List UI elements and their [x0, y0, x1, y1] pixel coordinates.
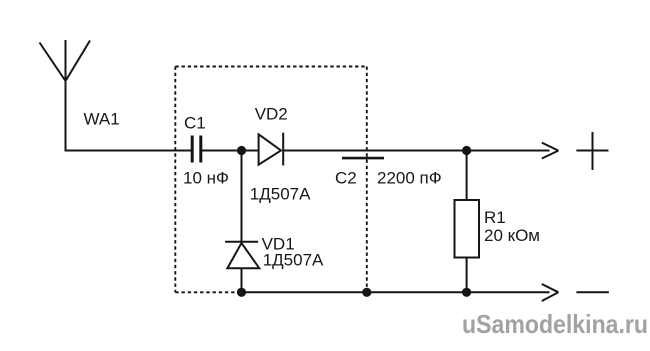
svg-text:1Д507А: 1Д507А [250, 184, 311, 203]
resistor R1 [455, 200, 480, 258]
node C junction dot [237, 288, 246, 297]
wire R1 down to node F [466, 258, 468, 293]
svg-text:WA1: WA1 [84, 110, 120, 129]
detector block dashed outline [175, 67, 366, 293]
diode VD1 [225, 242, 259, 269]
node F junction dot [462, 288, 471, 297]
output arrow top [542, 143, 559, 159]
diode VD2 [259, 133, 284, 166]
svg-text:C2: C2 [335, 168, 357, 187]
capacitor C1 [192, 136, 201, 163]
svg-text:VD2: VD2 [255, 105, 288, 124]
wire VD2 to node B [283, 150, 549, 152]
output arrow bottom [542, 284, 559, 301]
svg-text:uSamodelkina.ru: uSamodelkina.ru [462, 309, 648, 339]
svg-text:20 кОм: 20 кОм [484, 226, 540, 245]
capacitor C2 bottom plate [342, 157, 384, 160]
minus terminal [576, 291, 609, 293]
svg-text:C1: C1 [184, 114, 206, 133]
wire VD1 to node C [241, 268, 243, 292]
svg-text:2200 пФ: 2200 пФ [377, 169, 442, 188]
node E junction dot (top rail to R1) [462, 146, 471, 155]
wire antenna to C1 [65, 150, 192, 152]
wire C1 to node A [202, 150, 259, 152]
svg-text:R1: R1 [484, 208, 506, 227]
antenna WA1 [40, 40, 91, 151]
plus terminal [576, 132, 608, 170]
bottom rail wire [242, 291, 550, 293]
node A junction dot [237, 146, 246, 155]
node D junction dot (C2 to bottom rail) [362, 288, 371, 297]
svg-text:10 нФ: 10 нФ [183, 169, 229, 188]
wire node A down to VD1 [241, 151, 243, 242]
svg-text:1Д507А: 1Д507А [263, 250, 324, 269]
wire node E down to R1 [466, 151, 468, 201]
